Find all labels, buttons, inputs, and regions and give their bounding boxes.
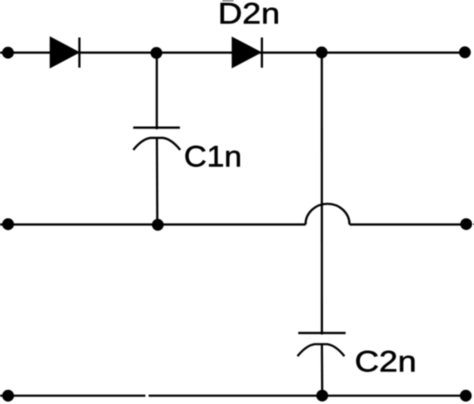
diode D1 triangle: [51, 38, 79, 68]
svg-text:C2n: C2n: [355, 346, 417, 379]
node dot bottom-left terminal: [2, 390, 14, 402]
diode D2n triangle: [233, 38, 261, 67]
wire C2n vertical lead: [321, 53, 323, 335]
wire bottom rail left segment: [0, 395, 145, 397]
capacitor C1n curved plate: [133, 138, 180, 150]
node dot middle-left terminal: [2, 218, 14, 230]
capacitor C1n straight plate: [133, 126, 180, 128]
node dot top junction C2n: [316, 47, 328, 59]
node dot top-left terminal: [2, 47, 14, 59]
node dot bottom-right terminal: [460, 390, 472, 402]
svg-text:D2n: D2n: [218, 0, 280, 31]
wire C2n bottom lead: [321, 344, 324, 395]
wire middle rail right segment: [350, 223, 467, 225]
wire top rail: [0, 51, 465, 53]
wire stub right edge middle rail: [473, 223, 474, 225]
capacitor C2n curved plate: [298, 344, 345, 356]
wire C1n top lead: [156, 53, 158, 129]
node dot top junction C1n: [151, 47, 163, 59]
diode D2n cathode bar: [261, 38, 263, 68]
wire middle rail left segment: [0, 223, 306, 225]
node dot middle junction C1n: [152, 219, 164, 231]
capacitor C2n straight plate: [298, 332, 345, 334]
node dot top-right terminal: [459, 46, 471, 58]
svg-text:C1n: C1n: [184, 140, 242, 173]
node dot bottom junction C2n: [316, 390, 328, 402]
wire hop over crossing: [306, 204, 350, 225]
cropped gray artifact top edge: [223, 0, 234, 2]
wire C1n bottom lead: [156, 138, 159, 225]
node dot middle-right terminal: [460, 218, 472, 230]
wire bottom rail right segment: [149, 395, 466, 397]
diode D1 cathode bar: [78, 38, 80, 68]
